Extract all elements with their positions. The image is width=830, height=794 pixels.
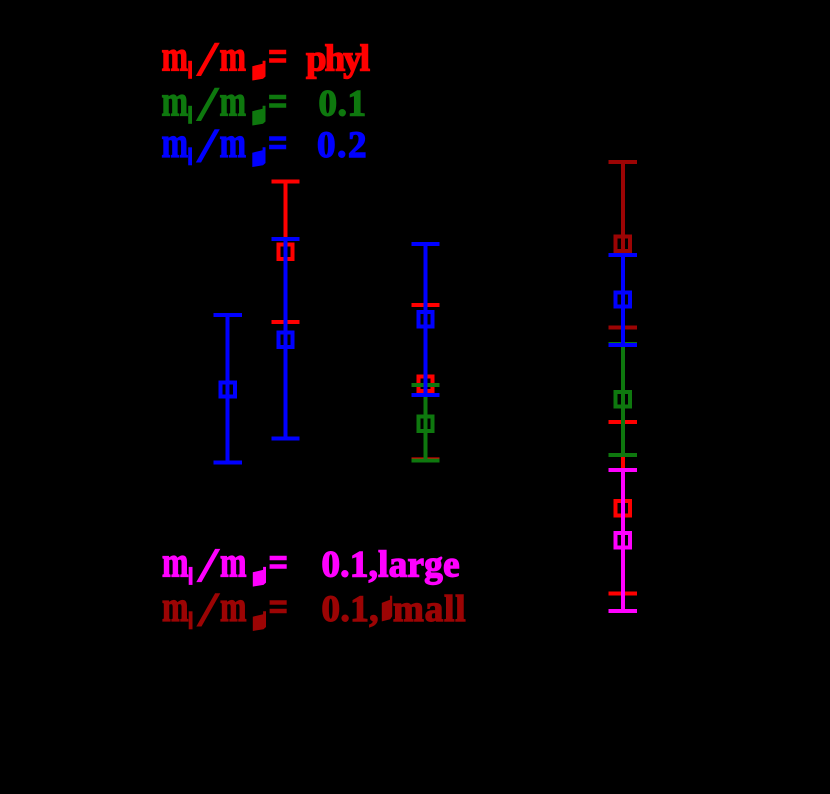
blue error bar, cluster 2: line <box>284 239 288 439</box>
svg-text:m: m <box>162 79 189 126</box>
blue cluster 4 bottom cap <box>609 343 637 347</box>
red cluster 3 bottom cap <box>411 458 439 462</box>
red cluster 3 top cap <box>411 303 439 307</box>
magenta cluster 4 top cap <box>609 468 637 472</box>
red cluster 4 top cap <box>609 420 637 424</box>
legend row 5: m_l/m_s = 0.1,small (dark red) <box>162 584 466 631</box>
green cluster 4 bottom cap <box>609 453 637 457</box>
dark red error bar, cluster 4: line <box>621 162 625 327</box>
svg-text:0.1: 0.1 <box>319 84 367 125</box>
svg-text:=: = <box>269 540 289 587</box>
red error bar, cluster 3: line <box>424 305 428 460</box>
blue cluster 1 top cap <box>214 313 242 317</box>
red cluster 2 square symbol <box>278 244 292 258</box>
magenta error bar, cluster 4: line <box>621 470 625 611</box>
svg-text:m: m <box>220 34 247 81</box>
svg-text:m: m <box>220 584 247 631</box>
svg-text:m: m <box>162 120 189 167</box>
red error bar, cluster 2: line <box>284 182 288 322</box>
green cluster 4 top cap <box>609 342 637 346</box>
magenta cluster 4 square symbol <box>616 533 630 547</box>
red cluster 2 top cap <box>271 180 299 184</box>
blue cluster 1 bottom cap <box>214 460 242 464</box>
green error bar, cluster 3: line <box>424 385 428 460</box>
svg-text:=: = <box>269 584 289 631</box>
svg-text:m: m <box>220 120 247 167</box>
green cluster 3 bottom cap <box>411 458 439 462</box>
red cluster 3 square symbol <box>418 376 432 390</box>
svg-text:phyl: phyl <box>306 39 370 80</box>
svg-text:0.2: 0.2 <box>317 125 367 166</box>
svg-text:=: = <box>268 120 288 167</box>
green error bar, cluster 4: line <box>621 344 625 455</box>
blue error bar, cluster 1: line <box>226 315 230 462</box>
magenta cluster 4 bottom cap <box>609 609 637 613</box>
dark red cluster 4 top cap <box>609 160 637 164</box>
legend row 4: m_l/m_s = 0.1,large (magenta) <box>162 540 460 587</box>
blue cluster 3 top cap <box>411 242 439 246</box>
red cluster 4 bottom cap <box>609 591 637 595</box>
legend row 2: m_l/m_s = 0.1 (green) <box>162 79 367 126</box>
red cluster 4 square symbol <box>616 501 630 515</box>
legend row 3: m_l/m_s = 0.2 (blue) <box>162 120 367 167</box>
blue cluster 4 square symbol <box>616 292 630 306</box>
blue cluster 1 square symbol <box>221 382 235 396</box>
svg-text:0.1,: 0.1, <box>322 589 379 630</box>
blue cluster 3 square symbol <box>418 312 432 326</box>
svg-text:m: m <box>220 79 247 126</box>
svg-text:m: m <box>162 540 189 587</box>
blue cluster 3 bottom cap <box>411 393 439 397</box>
svg-text:m: m <box>220 540 247 587</box>
dark red cluster 4 square symbol <box>616 237 630 251</box>
svg-text:0.1,large: 0.1,large <box>322 545 460 586</box>
blue cluster 2 bottom cap <box>271 437 299 441</box>
svg-text:=: = <box>268 34 288 81</box>
red cluster 2 bottom cap <box>271 320 299 324</box>
svg-text:m: m <box>162 584 189 631</box>
svg-text:mall: mall <box>393 589 466 630</box>
svg-text:m: m <box>162 34 189 81</box>
blue error bar, cluster 3: line <box>424 244 428 395</box>
svg-text:=: = <box>268 79 288 126</box>
green cluster 3 top cap <box>411 383 439 387</box>
blue cluster 2 top cap <box>271 237 299 241</box>
blue cluster 2 square symbol <box>278 333 292 347</box>
dark red cluster 4 bottom cap <box>609 325 637 329</box>
legend row 1: m_l/m_s = phyl (red) <box>162 34 371 81</box>
blue error bar, cluster 4: line <box>621 255 625 345</box>
blue cluster 4 top cap <box>609 253 637 257</box>
green cluster 3 square symbol <box>418 417 432 431</box>
red error bar, cluster 4: line <box>621 422 625 593</box>
green cluster 4 square symbol <box>616 392 630 406</box>
